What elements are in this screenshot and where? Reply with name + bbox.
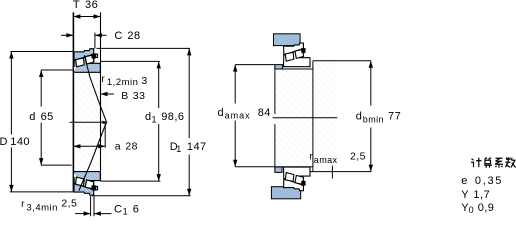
svg-text:2,5: 2,5 xyxy=(350,151,366,163)
svg-text:Y: Y xyxy=(461,189,469,201)
svg-text:28: 28 xyxy=(125,140,138,152)
svg-text:amax: amax xyxy=(314,155,338,165)
svg-text:1: 1 xyxy=(176,144,181,154)
svg-text:r: r xyxy=(309,152,313,163)
svg-text:2,5: 2,5 xyxy=(61,198,77,210)
svg-text:C: C xyxy=(114,30,122,42)
svg-text:C: C xyxy=(114,203,122,215)
svg-text:e: e xyxy=(461,175,468,187)
svg-text:36: 36 xyxy=(85,0,98,11)
svg-text:d: d xyxy=(356,110,363,122)
svg-text:0,9: 0,9 xyxy=(478,202,495,214)
svg-text:140: 140 xyxy=(10,136,30,148)
svg-text:T: T xyxy=(73,0,80,11)
svg-text:65: 65 xyxy=(41,111,54,123)
svg-text:1: 1 xyxy=(152,114,157,124)
svg-text:bmin: bmin xyxy=(363,114,384,124)
svg-text:amax: amax xyxy=(225,111,251,121)
svg-text:3: 3 xyxy=(141,75,147,87)
svg-text:a: a xyxy=(115,140,121,152)
svg-text:3,4min: 3,4min xyxy=(26,203,58,214)
svg-text:1,7: 1,7 xyxy=(473,189,490,201)
svg-text:B: B xyxy=(121,90,128,102)
svg-text:0,35: 0,35 xyxy=(475,175,503,187)
svg-text:33: 33 xyxy=(133,90,146,102)
svg-text:D: D xyxy=(0,136,8,148)
svg-text:d: d xyxy=(29,111,36,123)
svg-text:r: r xyxy=(101,74,105,85)
svg-text:0: 0 xyxy=(469,205,474,215)
svg-text:28: 28 xyxy=(127,30,140,42)
svg-text:6: 6 xyxy=(133,203,140,215)
svg-text:1,2min: 1,2min xyxy=(107,77,139,88)
svg-text:d: d xyxy=(218,107,225,119)
svg-text:98,6: 98,6 xyxy=(161,111,184,123)
svg-text:147: 147 xyxy=(187,141,207,153)
svg-text:77: 77 xyxy=(388,110,401,122)
svg-text:84: 84 xyxy=(258,107,271,119)
svg-text:r: r xyxy=(21,199,25,210)
svg-text:1: 1 xyxy=(123,206,128,216)
